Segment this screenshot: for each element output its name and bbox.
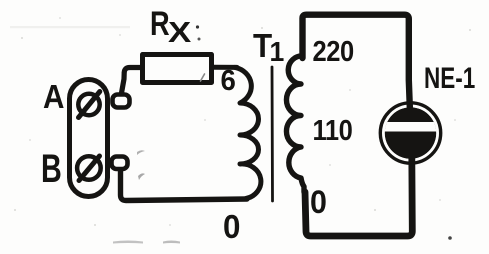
stray dot after RX xyxy=(196,25,199,28)
paper streak top left xyxy=(10,26,130,28)
wire resistor to primary top xyxy=(214,65,237,70)
screw terminal A xyxy=(78,92,100,118)
svg-text:X: X xyxy=(168,16,192,49)
secondary bottom wire loop xyxy=(305,155,412,236)
resistor RX xyxy=(143,55,212,83)
transformer core xyxy=(271,67,274,201)
svg-text:A: A xyxy=(43,79,64,116)
screw terminal B xyxy=(77,156,101,181)
svg-text:R: R xyxy=(150,4,170,43)
svg-text:110: 110 xyxy=(313,113,353,146)
stray dot bottom right xyxy=(448,236,452,240)
terminal block (plug body) xyxy=(70,80,108,197)
gray smudge near B tab xyxy=(137,150,145,155)
wire A hook up to resistor xyxy=(122,68,142,94)
svg-text:220: 220 xyxy=(313,34,355,67)
svg-text:1: 1 xyxy=(270,35,285,67)
hook terminal on A xyxy=(113,95,130,108)
paper speckles xyxy=(14,17,471,226)
wire primary bottom to B hook xyxy=(121,170,248,201)
svg-text:B: B xyxy=(41,146,62,191)
secondary top wire loop xyxy=(303,15,410,107)
svg-text:NE-1: NE-1 xyxy=(424,61,475,95)
primary winding of T1 xyxy=(235,67,261,198)
hook terminal on B xyxy=(112,157,128,170)
scratch mark inside resistor xyxy=(201,74,205,81)
secondary winding of T1 xyxy=(286,56,304,192)
svg-text:0: 0 xyxy=(310,184,327,220)
svg-text:0: 0 xyxy=(223,208,240,245)
faint caption remnant at bottom xyxy=(113,241,143,244)
